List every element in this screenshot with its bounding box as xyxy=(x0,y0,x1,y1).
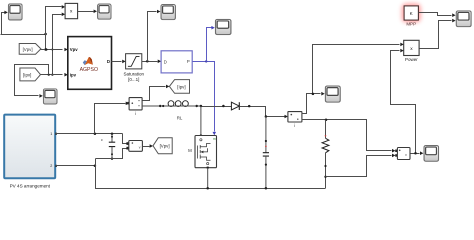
svg-text:MPP: MPP xyxy=(406,22,416,27)
scope Scope2 (power display) xyxy=(98,4,111,19)
wire diode to output node xyxy=(240,105,288,118)
scope Scope6 (MPP vs Power) xyxy=(456,11,471,27)
wire Vpv to Product1 input 1 xyxy=(44,5,65,51)
current measurement Ipv xyxy=(127,98,142,117)
wire v-meter1 plus lead xyxy=(123,134,127,144)
wire [Vpv] tag to AGPSO Vpv xyxy=(41,48,68,52)
wire v-meter2 to Scope8 xyxy=(411,151,424,155)
wire PV port 1 top rail xyxy=(56,132,123,135)
wire Saturation branch to Scope4 xyxy=(148,10,161,62)
MATLAB function block AGPSO xyxy=(68,37,112,90)
svg-text:P: P xyxy=(187,59,190,64)
wire sensor to load top node xyxy=(302,119,396,153)
saturation block xyxy=(124,54,145,82)
svg-text:Power: Power xyxy=(405,57,418,62)
from tag [Vpv] xyxy=(19,44,41,55)
svg-text:M: M xyxy=(188,148,192,153)
svg-text:1: 1 xyxy=(50,132,52,136)
svg-text:[Ipv]: [Ipv] xyxy=(177,84,185,89)
wire v-meter1 to goto [Vpv] xyxy=(143,144,154,148)
PV array block PV 4S arrangement xyxy=(4,115,57,189)
svg-text:Vpv: Vpv xyxy=(70,47,78,52)
svg-text:D: D xyxy=(107,59,110,64)
svg-text:[Ipv]: [Ipv] xyxy=(23,73,31,78)
wire load bottom to v-meter2 minus xyxy=(326,154,396,177)
wire load current measurement to Scope7 xyxy=(302,92,325,114)
voltage measurement load xyxy=(395,148,410,160)
svg-text:Ipv: Ipv xyxy=(70,72,77,77)
wire Product1 to Scope2 xyxy=(78,10,98,14)
wire inductor to diode node xyxy=(200,105,232,108)
wire AGPSO D to Saturation xyxy=(112,60,126,64)
scope Scope8 (load voltage) xyxy=(424,146,439,162)
wire load voltage to Power input 2 xyxy=(391,49,416,154)
wire [Ipv] tag to AGPSO Ipv xyxy=(41,73,68,77)
wire PV port 2 bottom xyxy=(56,165,97,168)
svg-text:RL: RL xyxy=(177,116,183,121)
wire into Scope1 xyxy=(2,11,8,35)
product block Power xyxy=(404,40,419,62)
from tag [Ipv] xyxy=(20,68,41,81)
wire top rail up to current sensor xyxy=(95,102,130,134)
wire bottom loop to v-meter1 minus xyxy=(96,149,127,159)
product block Product1 xyxy=(65,3,78,18)
wire Ipv to Product1 input 2 xyxy=(51,13,65,76)
scope Scope7 (load current) xyxy=(325,86,340,102)
wire Ipv branch to Scope3 xyxy=(15,65,49,98)
wire P output to MOSFET gate (blue) xyxy=(193,60,217,135)
wire Ipv measurement to goto [Ipv] xyxy=(143,85,170,101)
scope Scope5 (PWM display) xyxy=(215,19,230,34)
wire P branch to Scope5 (blue) xyxy=(207,26,215,62)
wire Vpv bus horizontal xyxy=(1,33,47,36)
svg-text:v: v xyxy=(139,146,141,150)
scope Scope3 (Ipv display) xyxy=(43,89,57,104)
goto tag [Vpv] xyxy=(153,138,172,154)
subsystem block D-P (PWM) xyxy=(161,51,192,73)
MOSFET switch M xyxy=(188,106,216,188)
capacitor C2 (output) xyxy=(263,117,269,189)
svg-text:m: m xyxy=(213,137,216,141)
capacitor C1 (input) xyxy=(101,134,115,160)
svg-text:i: i xyxy=(135,111,136,116)
wire ground rail xyxy=(96,159,326,190)
svg-text:v: v xyxy=(405,153,407,157)
current measurement load xyxy=(288,112,302,128)
svg-text:i: i xyxy=(294,123,295,128)
wire MPP to Scope6 input 1 xyxy=(419,13,456,18)
resistor R load xyxy=(322,120,329,189)
svg-text:PV 4S arrangement: PV 4S arrangement xyxy=(10,183,51,188)
diode D1 xyxy=(231,102,239,110)
constant block MPP (selected, red glow) xyxy=(402,4,421,27)
goto tag [Ipv] xyxy=(169,80,189,94)
svg-text:[Vpv]: [Vpv] xyxy=(160,144,170,149)
wire Saturation to converter-control block xyxy=(142,60,162,64)
scope Scope1 (Vpv display) xyxy=(8,4,22,20)
svg-text:[Vpv]: [Vpv] xyxy=(23,47,33,52)
voltage measurement Vpv xyxy=(126,141,142,152)
svg-text:2: 2 xyxy=(50,164,52,168)
inductor RL xyxy=(142,101,201,121)
scope Scope4 (duty display) xyxy=(161,4,175,19)
wire load power measurement to Power input 1 xyxy=(313,43,404,94)
svg-text:AGPSO: AGPSO xyxy=(80,67,98,73)
wire Power to Scope6 input 2 xyxy=(420,19,456,49)
svg-text:[0...1]: [0...1] xyxy=(128,77,139,82)
svg-text:c: c xyxy=(101,138,103,142)
